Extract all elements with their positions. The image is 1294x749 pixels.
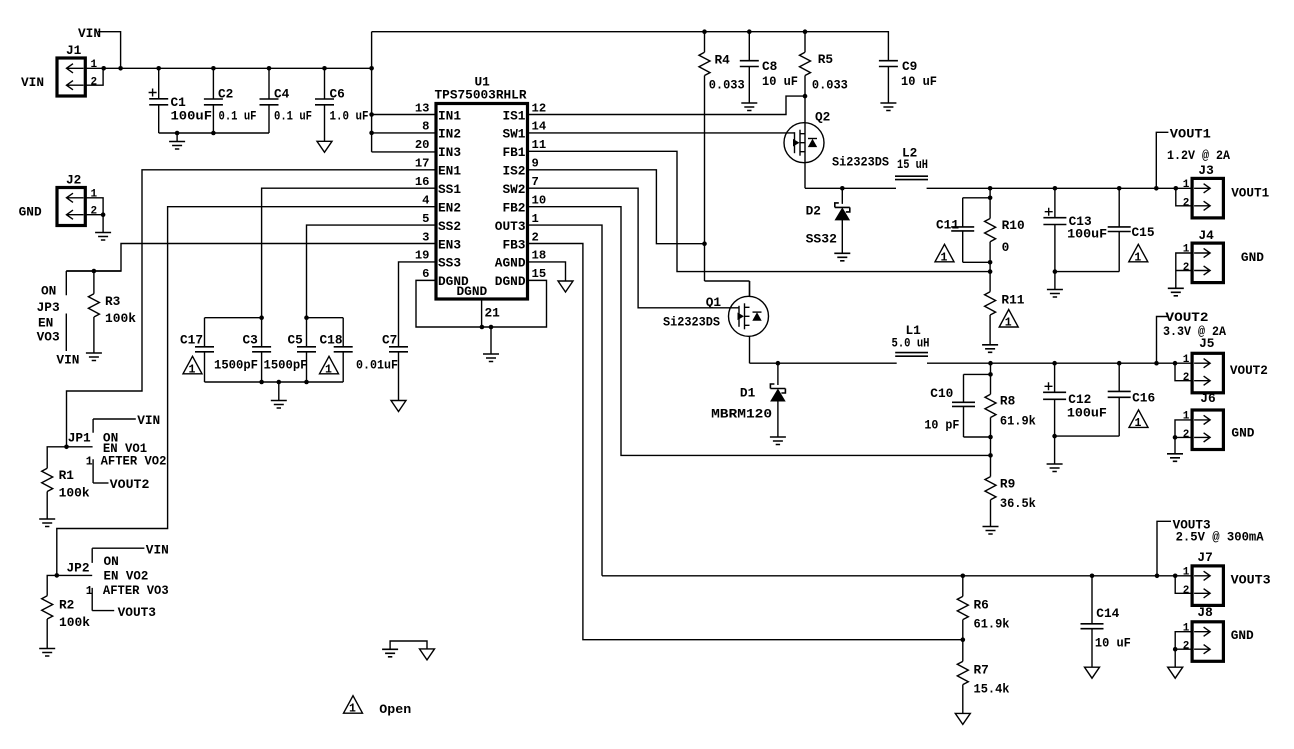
junction VOUT2/C12 bbox=[1052, 361, 1057, 366]
svg-text:SW1: SW1 bbox=[502, 127, 525, 142]
junction VOUT3/J7 bbox=[1173, 574, 1178, 579]
ground (open triangle) below C14 bbox=[1085, 667, 1100, 678]
wire JP2 VIN tick bbox=[92, 547, 144, 549]
wire VOUT1 label tick bbox=[1156, 132, 1168, 188]
svg-text:C16: C16 bbox=[1132, 391, 1155, 406]
ground below R9 bbox=[983, 527, 999, 535]
junction switch node / D1 bbox=[776, 361, 781, 366]
connector J8 bbox=[1192, 622, 1223, 662]
svg-text:FB3: FB3 bbox=[502, 237, 525, 252]
svg-text:1: 1 bbox=[1183, 411, 1190, 423]
resistor R3 (100k) bbox=[88, 271, 99, 353]
svg-text:10 pF: 10 pF bbox=[924, 418, 959, 433]
svg-text:0.1 uF: 0.1 uF bbox=[219, 109, 257, 124]
junction VOUT3/R6 bbox=[961, 574, 966, 579]
resistor R8 (61.9k) bbox=[985, 363, 996, 476]
wire pin 21 stub bbox=[481, 299, 483, 327]
svg-text:C14: C14 bbox=[1096, 606, 1119, 621]
junction J8 pin2/ground bbox=[1173, 647, 1178, 652]
resistor R9 (36.5k) bbox=[985, 477, 996, 527]
svg-text:0.01uF: 0.01uF bbox=[356, 358, 398, 373]
connector J5 bbox=[1192, 353, 1223, 393]
svg-text:1: 1 bbox=[1135, 417, 1142, 430]
ground below R2 bbox=[39, 649, 55, 657]
wire EN1 to JP1 bbox=[67, 170, 437, 447]
wire C5-C18 tie bbox=[307, 317, 344, 319]
junction VOUT1/label bbox=[1154, 186, 1159, 191]
svg-text:IN1: IN1 bbox=[438, 108, 461, 123]
wire C17-C3 tie bbox=[205, 317, 262, 319]
svg-text:AGND: AGND bbox=[495, 256, 526, 271]
svg-text:61.9k: 61.9k bbox=[1000, 414, 1036, 429]
capacitor C18 bbox=[334, 318, 353, 382]
svg-text:10 uF: 10 uF bbox=[762, 74, 798, 89]
svg-text:AFTER VO3: AFTER VO3 bbox=[103, 583, 169, 598]
svg-text:GND: GND bbox=[1231, 426, 1254, 441]
connector J1 bbox=[57, 58, 85, 96]
resistor R1 (100k) bbox=[42, 468, 53, 519]
junction ground tie / C2 bbox=[211, 131, 216, 136]
svg-text:Open: Open bbox=[379, 702, 411, 717]
ground (open triangle) below C6 bbox=[317, 141, 332, 152]
ground (open triangle) below R7 bbox=[955, 713, 970, 724]
svg-text:10: 10 bbox=[532, 193, 547, 207]
wire J4 pin 2 bbox=[1176, 270, 1192, 272]
wire SS3 to C7 bbox=[399, 262, 437, 347]
svg-text:JP1: JP1 bbox=[68, 431, 91, 446]
wire DGND pin 6 loop bbox=[416, 280, 547, 327]
svg-text:16: 16 bbox=[415, 175, 430, 189]
ground below SS caps bbox=[278, 382, 280, 401]
svg-text:SW2: SW2 bbox=[502, 182, 525, 197]
svg-text:J2: J2 bbox=[66, 173, 81, 188]
transistor Q1 Si2323DS bbox=[729, 281, 769, 363]
svg-text:2: 2 bbox=[91, 206, 98, 218]
junction VOUT2/C16 bbox=[1117, 361, 1122, 366]
junction feed/IN2 bbox=[369, 131, 374, 136]
svg-text:VIN: VIN bbox=[78, 26, 101, 41]
junction IS1/R5/Q2 bbox=[803, 94, 808, 99]
wire J1 pin 2 bbox=[85, 68, 103, 85]
resistor R4 (0.033) bbox=[699, 32, 750, 297]
svg-text:C3: C3 bbox=[243, 333, 259, 348]
svg-text:6: 6 bbox=[422, 267, 429, 281]
junction pin21/DGND loop bbox=[480, 325, 485, 330]
resistor R2 (100k) bbox=[42, 596, 53, 649]
svg-text:18: 18 bbox=[532, 249, 547, 263]
svg-text:EN3: EN3 bbox=[438, 237, 461, 252]
svg-text:1: 1 bbox=[1134, 251, 1141, 264]
svg-text:8: 8 bbox=[422, 120, 429, 134]
wire pin IN1 bbox=[372, 114, 436, 116]
capacitor C11 bbox=[951, 198, 990, 262]
wire VOUT1 rail bbox=[927, 187, 1193, 189]
svg-text:IN2: IN2 bbox=[438, 127, 461, 142]
svg-text:100uF: 100uF bbox=[171, 109, 213, 124]
svg-text:Si2323DS: Si2323DS bbox=[663, 315, 720, 330]
capacitor C3 (1500pF) bbox=[252, 347, 271, 382]
svg-text:J7: J7 bbox=[1197, 550, 1212, 565]
ground below U1 pin 21 bbox=[490, 327, 492, 354]
wire JP2 node to bracket bbox=[57, 574, 92, 576]
junction tie/ground bbox=[277, 380, 282, 385]
svg-text:1.2V @ 2A: 1.2V @ 2A bbox=[1167, 148, 1230, 163]
wire JP2 node to R2 bbox=[47, 575, 57, 595]
ground below J2 bbox=[102, 215, 104, 233]
svg-text:MBRM120: MBRM120 bbox=[711, 407, 772, 422]
wire SS1 to C3 bbox=[262, 188, 436, 347]
svg-text:Q2: Q2 bbox=[815, 110, 830, 125]
svg-text:5.0 uH: 5.0 uH bbox=[892, 336, 930, 351]
junction R8 top tie bbox=[988, 372, 993, 377]
svg-text:7: 7 bbox=[532, 175, 539, 189]
wire JP2 VOUT3 tick bbox=[92, 610, 114, 612]
svg-text:R5: R5 bbox=[818, 52, 834, 67]
open flag triangle 1 at C17 bbox=[183, 356, 202, 374]
open flag triangle 1 at C11 bbox=[935, 244, 954, 261]
wire C1-C4 ground tie bbox=[159, 132, 269, 134]
svg-text:D1: D1 bbox=[740, 385, 756, 400]
jumper JP3 bracket bbox=[65, 271, 67, 351]
wire OUT3 to VOUT3 rail bbox=[528, 225, 603, 576]
transistor Q2 Si2323DS bbox=[784, 96, 896, 188]
connector J2 bbox=[57, 188, 85, 226]
connector J4 bbox=[1192, 243, 1223, 283]
wire JP1 node to R1 bbox=[47, 447, 66, 469]
junction ground tie / stem bbox=[175, 131, 180, 136]
junction C12 tie/ground bbox=[1052, 434, 1057, 439]
svg-text:Si2323DS: Si2323DS bbox=[832, 155, 889, 170]
wire SS2 to C5 bbox=[307, 225, 437, 347]
wire SS cap ground tie bbox=[205, 381, 344, 383]
svg-text:17: 17 bbox=[415, 157, 430, 171]
junction VOUT1/R10 bbox=[988, 186, 993, 191]
junction VOUT3/label bbox=[1155, 574, 1160, 579]
wire VIN label tick bbox=[98, 32, 121, 69]
svg-text:13: 13 bbox=[415, 101, 430, 115]
svg-text:0: 0 bbox=[1002, 240, 1010, 255]
svg-text:1: 1 bbox=[532, 212, 539, 226]
wire JP1 VOUT2 tick bbox=[93, 482, 108, 484]
svg-text:C7: C7 bbox=[382, 333, 397, 348]
svg-text:GND: GND bbox=[1241, 250, 1264, 265]
capacitor C7 (0.01uF) bbox=[389, 347, 408, 401]
svg-text:R9: R9 bbox=[1000, 477, 1015, 492]
wire JP1 VIN tick bbox=[93, 418, 136, 420]
diode D1 MBRM120 bbox=[770, 363, 786, 437]
svg-text:100uF: 100uF bbox=[1067, 406, 1107, 421]
svg-text:VOUT3: VOUT3 bbox=[118, 605, 157, 620]
svg-text:1: 1 bbox=[941, 251, 948, 264]
ground below R11 bbox=[982, 345, 998, 353]
svg-text:ON: ON bbox=[104, 554, 119, 569]
svg-text:FB1: FB1 bbox=[502, 145, 525, 160]
svg-text:SS32: SS32 bbox=[806, 232, 837, 247]
svg-text:C2: C2 bbox=[218, 87, 233, 102]
wire FB3 to R6 bbox=[528, 244, 963, 640]
svg-text:1: 1 bbox=[91, 59, 98, 71]
svg-text:12: 12 bbox=[532, 101, 547, 115]
svg-text:EN1: EN1 bbox=[438, 164, 461, 179]
resistor R6 (61.9k) bbox=[957, 576, 968, 662]
resistor R5 (0.033) bbox=[800, 32, 811, 96]
junction VIN rail / C4 bbox=[267, 66, 272, 71]
wire FB1 to R10 bbox=[528, 151, 991, 271]
svg-text:C15: C15 bbox=[1132, 225, 1155, 240]
wire J7 pin 2 riser bbox=[1175, 576, 1192, 594]
svg-text:0.033: 0.033 bbox=[709, 78, 745, 93]
wire C12-C16 ground tie bbox=[1055, 435, 1120, 437]
junction IS2/R4 bbox=[702, 241, 707, 246]
wire IS2 to R4 bbox=[528, 170, 705, 244]
ground below C1 bank bbox=[176, 133, 178, 142]
ground below J6 bbox=[1167, 454, 1183, 462]
svg-text:2: 2 bbox=[1183, 197, 1190, 209]
junction C13 tie/ground bbox=[1053, 269, 1058, 274]
ground below C12 bbox=[1054, 436, 1056, 464]
junction R3 top bbox=[92, 269, 97, 274]
svg-text:J3: J3 bbox=[1198, 163, 1214, 178]
wire VIN top rail bbox=[372, 32, 889, 61]
connector J7 bbox=[1192, 566, 1223, 606]
svg-text:IS1: IS1 bbox=[502, 108, 525, 123]
svg-text:Q1: Q1 bbox=[706, 295, 722, 310]
svg-text:C9: C9 bbox=[902, 59, 917, 74]
capacitor C16 bbox=[1108, 363, 1131, 436]
wire VOUT2 rail bbox=[927, 362, 1192, 364]
svg-text:100k: 100k bbox=[105, 311, 136, 326]
svg-text:15 uH: 15 uH bbox=[897, 157, 928, 172]
junction R10/FB1/R11 bbox=[988, 269, 993, 274]
capacitor C12 (100uF polarized) bbox=[1043, 363, 1066, 436]
wire U1 input feed vertical bbox=[371, 32, 373, 152]
svg-text:1: 1 bbox=[1183, 244, 1190, 256]
junction VIN rail / label bbox=[118, 66, 123, 71]
svg-text:20: 20 bbox=[415, 138, 430, 152]
svg-text:VIN: VIN bbox=[137, 413, 160, 428]
svg-text:10 uF: 10 uF bbox=[1095, 636, 1131, 651]
wire VIN rail bbox=[104, 67, 372, 69]
svg-text:0.1 uF: 0.1 uF bbox=[274, 109, 312, 124]
capacitor C2 (0.1 uF) bbox=[204, 68, 223, 133]
capacitor C8 (10 uF) bbox=[740, 32, 759, 103]
svg-text:J1: J1 bbox=[66, 43, 82, 58]
svg-text:1500pF: 1500pF bbox=[214, 358, 258, 373]
svg-text:C8: C8 bbox=[762, 59, 777, 74]
svg-text:2: 2 bbox=[1183, 429, 1190, 441]
junction DGND/ground stem bbox=[489, 325, 494, 330]
svg-text:IN3: IN3 bbox=[438, 145, 461, 160]
wire J6 pin 2 bbox=[1175, 436, 1192, 438]
svg-text:GND: GND bbox=[1231, 628, 1254, 643]
svg-text:DGND: DGND bbox=[495, 274, 526, 289]
svg-text:R8: R8 bbox=[1000, 394, 1015, 409]
svg-text:3: 3 bbox=[422, 230, 429, 244]
svg-text:R2: R2 bbox=[59, 598, 74, 613]
svg-text:11: 11 bbox=[532, 138, 547, 152]
svg-text:100k: 100k bbox=[59, 615, 90, 630]
svg-text:J8: J8 bbox=[1197, 605, 1212, 620]
ground below C13 bbox=[1054, 272, 1056, 290]
ground below J4 bbox=[1168, 288, 1184, 296]
svg-text:1: 1 bbox=[349, 703, 356, 716]
ground below D2 bbox=[834, 253, 850, 260]
open flag triangle 1 at C18 bbox=[320, 356, 339, 374]
svg-text:VOUT3: VOUT3 bbox=[1231, 572, 1271, 587]
svg-text:4: 4 bbox=[422, 193, 429, 207]
svg-text:10 uF: 10 uF bbox=[901, 74, 937, 89]
wire pin IN2 bbox=[372, 132, 436, 134]
capacitor C9 (10 uF) bbox=[879, 61, 898, 103]
junction tie/C3 bbox=[259, 380, 264, 385]
svg-text:IS2: IS2 bbox=[502, 164, 525, 179]
capacitor C1 (100uF polarized) bbox=[149, 68, 169, 133]
junction top rail / R5 bbox=[803, 29, 808, 34]
junction VIN rail / C2 bbox=[211, 66, 216, 71]
svg-text:VIN: VIN bbox=[146, 542, 169, 557]
svg-text:21: 21 bbox=[485, 306, 501, 321]
svg-text:R6: R6 bbox=[974, 598, 989, 613]
svg-text:1: 1 bbox=[1183, 567, 1190, 579]
capacitor C14 (10 uF) bbox=[1081, 576, 1104, 667]
capacitor C5 (1500pF) bbox=[297, 347, 316, 382]
svg-text:JP3: JP3 bbox=[37, 300, 60, 315]
svg-text:SS1: SS1 bbox=[438, 182, 461, 197]
svg-text:J6: J6 bbox=[1200, 391, 1215, 406]
svg-text:1: 1 bbox=[189, 363, 196, 376]
junction VOUT3/C14 bbox=[1090, 574, 1095, 579]
connector J3 bbox=[1192, 178, 1223, 218]
svg-text:R7: R7 bbox=[974, 663, 989, 678]
junction J6 pin2/ground bbox=[1173, 435, 1178, 440]
svg-text:36.5k: 36.5k bbox=[1000, 496, 1036, 511]
svg-text:SS2: SS2 bbox=[438, 219, 461, 234]
junction R10 bottom tie bbox=[988, 260, 993, 265]
capacitor C6 (1.0 uF) bbox=[315, 68, 334, 141]
svg-text:100k: 100k bbox=[59, 486, 90, 501]
svg-text:R3: R3 bbox=[105, 294, 121, 309]
wire pin AGND bbox=[528, 262, 566, 281]
junction feed/IN1 bbox=[369, 112, 374, 117]
svg-text:C6: C6 bbox=[330, 87, 345, 102]
wire VOUT3 label tick bbox=[1157, 521, 1171, 576]
svg-text:TPS75003RHLR: TPS75003RHLR bbox=[435, 88, 527, 103]
wire J4 pins to ground bbox=[1176, 253, 1192, 288]
svg-text:15: 15 bbox=[532, 267, 547, 281]
svg-text:VOUT2: VOUT2 bbox=[110, 477, 150, 492]
svg-text:2: 2 bbox=[1183, 372, 1190, 384]
svg-text:ON: ON bbox=[41, 284, 56, 299]
resistor R7 (15.4k) bbox=[957, 661, 968, 713]
junction R6/FB3/R7 bbox=[961, 637, 966, 642]
wire C13-C15 ground tie bbox=[1055, 271, 1119, 273]
junction VIN rail / C1 bbox=[156, 66, 161, 71]
junction SS2/C5 tie bbox=[304, 315, 309, 320]
inductor L1 (5.0 uH) bbox=[895, 353, 928, 357]
capacitor C13 (100uF polarized) bbox=[1043, 188, 1066, 271]
svg-text:C18: C18 bbox=[320, 333, 343, 348]
legend open flag triangle 1 bbox=[344, 696, 363, 714]
open flag triangle 1 at C15 bbox=[1129, 244, 1148, 261]
ground net tie (analog-digital) bbox=[390, 641, 427, 649]
ground below C8 bbox=[741, 103, 757, 111]
resistor R10 (0) bbox=[985, 188, 996, 291]
svg-text:R11: R11 bbox=[1001, 293, 1024, 308]
svg-text:2: 2 bbox=[532, 230, 539, 244]
svg-text:C11: C11 bbox=[936, 218, 959, 233]
junction VOUT2/J5 bbox=[1173, 361, 1178, 366]
capacitor C10 (10 pF) bbox=[952, 374, 991, 437]
wire J6 pins to ground bbox=[1175, 420, 1192, 454]
wire J1 pin 1 bbox=[85, 67, 103, 69]
svg-text:DGND: DGND bbox=[457, 284, 488, 299]
svg-text:J5: J5 bbox=[1199, 336, 1215, 351]
junction R8 bottom tie bbox=[988, 435, 993, 440]
svg-text:AFTER VO2: AFTER VO2 bbox=[101, 454, 167, 469]
svg-text:R1: R1 bbox=[59, 468, 75, 483]
svg-text:2: 2 bbox=[1183, 262, 1190, 274]
svg-text:61.9k: 61.9k bbox=[974, 617, 1010, 632]
svg-text:2: 2 bbox=[1183, 641, 1190, 653]
connector J6 bbox=[1192, 410, 1223, 450]
wire SW2 to Q1 gate bbox=[528, 188, 740, 308]
svg-text:C4: C4 bbox=[274, 87, 290, 102]
wire J2 pin 2 bbox=[85, 214, 103, 216]
svg-text:VIN: VIN bbox=[56, 353, 79, 368]
junction JP2 node bbox=[55, 573, 60, 578]
junction VIN rail / U1 feed bbox=[369, 66, 374, 71]
junction VOUT1/J3 bbox=[1174, 186, 1179, 191]
svg-text:R10: R10 bbox=[1002, 218, 1025, 233]
junction VOUT1/C15 bbox=[1117, 186, 1122, 191]
wire VOUT2 switch rail bbox=[750, 362, 897, 364]
svg-text:2.5V @ 300mA: 2.5V @ 300mA bbox=[1176, 530, 1264, 545]
wire SW1 to Q2 gate bbox=[528, 132, 795, 134]
wire J2 pin 1 bbox=[85, 198, 103, 215]
ground (open triangle) below J8 bbox=[1168, 667, 1183, 678]
svg-text:D2: D2 bbox=[806, 204, 821, 219]
wire EN2 to JP2 bbox=[57, 207, 436, 576]
svg-text:OUT3: OUT3 bbox=[495, 219, 526, 234]
svg-text:1: 1 bbox=[91, 189, 98, 201]
junction J2 pin 2 bbox=[101, 212, 106, 217]
junction VOUT2/R8 bbox=[988, 361, 993, 366]
op-amp U1 TPS75003RHLR body bbox=[436, 104, 528, 300]
svg-text:C10: C10 bbox=[930, 386, 953, 401]
ground (open triangle) AGND bbox=[558, 281, 573, 292]
ground below C9 bbox=[880, 103, 896, 111]
wire J3 pin 2 riser bbox=[1176, 188, 1192, 206]
svg-text:19: 19 bbox=[415, 249, 430, 263]
ground below R1 bbox=[39, 519, 55, 527]
svg-text:9: 9 bbox=[532, 157, 539, 171]
svg-text:100uF: 100uF bbox=[1067, 227, 1107, 242]
ground below D1 bbox=[770, 437, 786, 445]
svg-text:JP2: JP2 bbox=[67, 561, 90, 576]
wire J8 pins to ground bbox=[1175, 632, 1192, 668]
svg-text:R4: R4 bbox=[715, 53, 731, 68]
junction VOUT1/C13 bbox=[1053, 186, 1058, 191]
svg-text:FB2: FB2 bbox=[502, 200, 525, 215]
capacitor C4 (0.1 uF) bbox=[260, 68, 279, 133]
svg-text:1: 1 bbox=[86, 585, 93, 598]
svg-text:1: 1 bbox=[1183, 354, 1190, 366]
junction J1 pins bbox=[101, 66, 106, 71]
svg-text:2: 2 bbox=[91, 76, 98, 88]
svg-text:VOUT1: VOUT1 bbox=[1170, 126, 1211, 141]
junction top rail / C8 bbox=[747, 29, 752, 34]
wire JP1 node to bracket bbox=[67, 446, 93, 448]
